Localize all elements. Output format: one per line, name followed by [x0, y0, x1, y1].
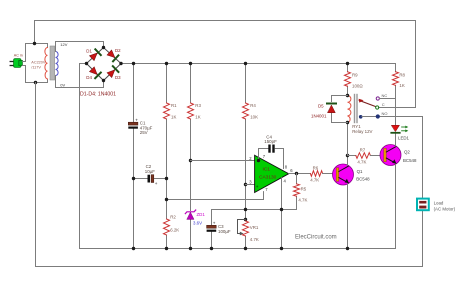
node R9 top on +12V rail: [346, 62, 349, 65]
svg-text:Q1: Q1: [357, 169, 363, 174]
svg-text:NC: NC: [382, 93, 388, 98]
relay NO pad: [359, 115, 363, 119]
svg-text:R5: R5: [301, 187, 307, 192]
wire R9 branch from +12V rail: [347, 64, 349, 72]
label R3 1K: [195, 103, 201, 120]
node VR1 wiper tie: [244, 218, 247, 221]
svg-text:R1: R1: [171, 103, 177, 108]
svg-text:1K: 1K: [399, 83, 404, 88]
svg-text:D2: D2: [115, 48, 121, 53]
zener diode ZD1: [185, 210, 195, 219]
wire ground rail: [80, 248, 396, 250]
capacitor C2: [134, 175, 167, 186]
node pin4 on lower horizontal: [280, 208, 283, 211]
wire D5 loop top: [332, 96, 348, 102]
node C2 right junction: [165, 177, 168, 180]
node bridge top vertex: [102, 46, 105, 49]
wire R3 ZD1 branch: [190, 64, 192, 104]
node primary-top junction: [33, 42, 36, 45]
label C2 10uF: [145, 164, 155, 174]
resistor R1: [164, 103, 170, 119]
svg-text:4.7K: 4.7K: [250, 237, 259, 242]
label R8 1K: [399, 73, 405, 89]
node ZD1 ground: [189, 247, 192, 250]
wire node to R7: [348, 155, 356, 157]
label VR1 4.7K: [250, 225, 259, 242]
svg-text:4.7K: 4.7K: [357, 160, 366, 165]
node C2 left junction: [132, 177, 135, 180]
wire R5 branch: [296, 174, 298, 184]
node pin2 junction: [189, 159, 192, 162]
resistor R6: [310, 171, 322, 177]
node C1 ground: [132, 247, 135, 250]
wire NO to load: [362, 117, 423, 198]
node VR1 ground: [244, 247, 247, 250]
wire C4 feedback right to pin 8: [275, 149, 284, 169]
svg-text:R8: R8: [399, 73, 405, 78]
svg-text:NO: NO: [382, 111, 388, 116]
wire pin 7 stub to lower-left net: [167, 192, 264, 200]
svg-text:ElecCircuit.com: ElecCircuit.com: [295, 235, 337, 241]
svg-text:Q2: Q2: [404, 150, 410, 155]
svg-text:12V: 12V: [60, 42, 67, 47]
node relay coil top: [346, 94, 349, 97]
resistor R7: [356, 153, 371, 159]
transformer secondary winding: [56, 52, 59, 76]
svg-text:BC548: BC548: [356, 176, 370, 181]
svg-text:/117V: /117V: [31, 65, 41, 69]
label R4 10K: [250, 103, 258, 120]
node output junction: [295, 172, 298, 175]
wire +12V rail: [121, 63, 396, 65]
svg-text:1N4001: 1N4001: [311, 114, 327, 119]
wire Q2 emitter to ground rail: [395, 164, 397, 248]
wire op-amp output: [289, 173, 311, 175]
label C4 150pF: [264, 134, 277, 144]
node relay coil bottom: [346, 121, 349, 124]
wire Q1 collector: [347, 156, 349, 166]
wire C3 branch: [211, 210, 213, 226]
svg-text:+: +: [135, 117, 138, 122]
label RY1 Relay 12V: [352, 124, 372, 134]
label R9 100ohm: [352, 73, 363, 89]
svg-text:LED1: LED1: [398, 136, 410, 141]
wire VR1 wiper bracket: [238, 220, 246, 234]
node bridge right vertex: [119, 62, 122, 65]
bridge rectifier diamond wires: [87, 48, 122, 81]
wire secondary 12V to bridge top: [56, 42, 104, 52]
diode D4: [89, 66, 101, 78]
wire AC neutral rail: [36, 83, 423, 267]
transistor Q1 BC548: [333, 164, 354, 185]
node R1 top on +12V rail: [165, 62, 168, 65]
label Q2 BC548: [403, 150, 417, 163]
label C1 470uF 25V: [140, 121, 153, 136]
resistor R2: [164, 219, 170, 235]
svg-text:1K: 1K: [171, 115, 176, 120]
wire D5 loop bottom: [332, 113, 348, 123]
wire C1 branch: [133, 64, 135, 123]
relay RY1 coil: [348, 96, 351, 123]
svg-text:4.7K: 4.7K: [298, 198, 307, 203]
svg-text:(AC Motor): (AC Motor): [434, 206, 456, 211]
wire R6 to Q1 base: [323, 173, 333, 175]
potentiometer VR1: [243, 221, 249, 236]
wire Q1 emitter to ground: [347, 184, 349, 249]
wire R8 branch: [395, 64, 397, 72]
wire C4 feedback left: [259, 149, 269, 161]
svg-text:D1-D4: 1N4001: D1-D4: 1N4001: [80, 92, 116, 98]
svg-text:D3: D3: [115, 75, 121, 80]
svg-text:+: +: [155, 181, 158, 186]
label R2 6.2K: [170, 215, 179, 233]
diode D5: [327, 104, 336, 113]
label C3 100uF: [218, 224, 231, 234]
svg-text:+: +: [213, 221, 216, 226]
wire NC stub: [379, 98, 395, 100]
label R1 1K: [171, 103, 177, 120]
wire R7 to Q2 base: [370, 155, 380, 157]
wire plug to transformer primary: [22, 61, 25, 63]
node bridge bottom vertex: [102, 79, 105, 82]
svg-text:D1: D1: [86, 48, 92, 53]
node pin4 ground: [280, 247, 283, 250]
wire Q2 collector to LED1: [395, 134, 397, 147]
wire R1 R2 branch: [166, 64, 168, 104]
svg-text:R3: R3: [195, 103, 201, 108]
relay NC contact: [376, 97, 379, 100]
svg-text:R2: R2: [170, 215, 176, 220]
label AC220V/117V: [31, 60, 46, 69]
node pin7 wire junction: [165, 198, 168, 201]
load box (AC motor): [417, 199, 429, 211]
svg-text:6.2K: 6.2K: [170, 228, 179, 233]
label R6 4.7K: [310, 166, 319, 183]
svg-text:Relay 12V: Relay 12V: [352, 129, 372, 134]
svg-text:25V: 25V: [140, 130, 148, 135]
wire pin3 to R4-VR1 branch: [246, 184, 255, 186]
svg-text:100µF: 100µF: [218, 229, 231, 234]
node pin3 junction: [244, 183, 247, 186]
node C4 tap on pin2 wire: [257, 159, 260, 162]
transformer core: [50, 46, 55, 80]
wire relay common to AC-hot: [379, 107, 416, 109]
svg-text:10µF: 10µF: [145, 169, 155, 174]
transformer primary loop wires: [26, 44, 48, 62]
relay armature lever: [359, 100, 375, 106]
label Load (AC Motor): [434, 200, 456, 211]
node R2 ground: [165, 247, 168, 250]
relay RY1 core: [354, 95, 356, 123]
capacitor C4: [268, 145, 274, 153]
AC plug: [10, 54, 23, 68]
svg-text:CA3130: CA3130: [259, 175, 277, 181]
node primary-bottom junction: [34, 81, 37, 84]
svg-text:R4: R4: [250, 103, 256, 108]
wire pin2 to R3-ZD1 branch: [191, 160, 255, 162]
svg-text:R9: R9: [352, 73, 358, 78]
svg-text:IC1: IC1: [263, 167, 271, 173]
wire bridge left vertex to ground rail: [80, 64, 87, 249]
transistor Q2 BC548: [380, 145, 401, 166]
resistor R8: [393, 72, 399, 86]
node VR1 top lower horizontal: [244, 208, 247, 211]
resistor R4: [243, 103, 249, 119]
resistor R3: [188, 103, 194, 119]
relay C contact: [376, 106, 379, 109]
wire pin 4 stub to ground: [281, 178, 283, 249]
op-amp IC1 CA3130: [255, 155, 289, 192]
label R5 4.7K: [298, 187, 307, 203]
svg-text:150pF: 150pF: [264, 139, 277, 144]
node Q1 collector R7 junction: [346, 154, 349, 157]
diode D1: [89, 49, 101, 61]
capacitor C1: [128, 117, 138, 128]
diode D2: [107, 50, 119, 62]
node R4 top on +12V rail: [244, 62, 247, 65]
svg-text:R7: R7: [360, 148, 366, 153]
wire relay coil bottom: [347, 123, 349, 156]
wire lower horizontal C3 VR1 R5: [212, 209, 297, 211]
svg-text:3.6V: 3.6V: [193, 221, 202, 226]
svg-text:D5: D5: [318, 104, 324, 109]
wire top AC-hot rail: [35, 21, 416, 108]
LED LED1: [391, 125, 408, 133]
svg-text:AC220V: AC220V: [31, 60, 46, 64]
svg-text:4.7K: 4.7K: [310, 178, 319, 183]
resistor R5: [294, 184, 300, 197]
relay NO contact: [376, 115, 379, 118]
svg-text:R6: R6: [313, 166, 319, 171]
svg-text:10K: 10K: [250, 115, 258, 120]
node Q1 emitter ground: [346, 247, 349, 250]
svg-text:Load: Load: [434, 200, 444, 205]
diode D3: [107, 66, 119, 78]
node bridge left vertex: [85, 62, 88, 65]
node R3 top on +12V rail: [189, 62, 192, 65]
svg-text:100Ω: 100Ω: [352, 83, 363, 88]
svg-text:BC548: BC548: [403, 158, 417, 163]
label R7 4.7K: [357, 148, 366, 165]
svg-text:AC in: AC in: [14, 54, 23, 58]
svg-text:C: C: [382, 102, 385, 107]
svg-text:ZD1: ZD1: [197, 212, 206, 217]
node C3 ground: [210, 247, 213, 250]
wiper arrow VR1: [240, 232, 244, 236]
capacitor C3: [207, 221, 217, 232]
resistor R9: [345, 72, 351, 87]
node C1 top on +12V rail: [132, 62, 135, 65]
svg-text:+: +: [256, 184, 259, 189]
svg-text:0V: 0V: [60, 82, 65, 87]
wire R4 VR1 branch: [245, 64, 247, 104]
svg-text:1K: 1K: [195, 115, 200, 120]
svg-text:D4: D4: [86, 75, 92, 80]
wire secondary 0V to bridge bottom: [56, 76, 104, 88]
svg-text:VR1: VR1: [250, 225, 259, 230]
label Q1 BC548: [356, 169, 370, 182]
transformer primary winding: [45, 48, 48, 80]
